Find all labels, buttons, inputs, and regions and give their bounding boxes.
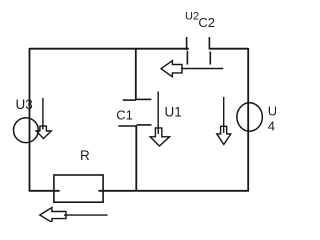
- voltage arrow U2 shaft: [181, 68, 223, 70]
- svg-text:U3: U3: [16, 97, 33, 112]
- svg-text:U2: U2: [185, 11, 199, 23]
- source U3 circle: [14, 118, 39, 143]
- capacitor C2 left plate: [186, 37, 189, 65]
- svg-text:R: R: [80, 148, 90, 163]
- voltage arrow U1 shaft: [157, 92, 159, 135]
- resistor R body: [54, 175, 103, 202]
- svg-text:C2: C2: [198, 15, 215, 30]
- current arrow bottom head: [40, 208, 66, 223]
- svg-text:U: U: [268, 103, 276, 118]
- voltage arrow U3 head: [36, 126, 51, 138]
- wire right branch (through U4): [247, 48, 249, 192]
- wire top (node between U3, C1, C2): [30, 48, 189, 50]
- voltage arrow U4 shaft: [223, 97, 225, 133]
- voltage arrow U4 head: [217, 126, 231, 144]
- capacitor C1 bottom plate: [118, 125, 151, 126]
- wire C2 right lead to top-right corner: [210, 48, 248, 50]
- wire bottom right (resistor R to right corner): [99, 190, 249, 192]
- svg-text:U1: U1: [165, 105, 182, 120]
- voltage arrow U2 head: [161, 61, 182, 77]
- voltage arrow U1 head: [150, 128, 169, 146]
- current arrow bottom shaft: [64, 214, 108, 216]
- source U4 circle: [237, 103, 263, 131]
- svg-text:C1: C1: [116, 108, 133, 123]
- wire left branch (through U3): [29, 48, 31, 192]
- wire bottom left (to resistor R): [29, 190, 60, 192]
- wire C1 bottom lead: [135, 125, 137, 191]
- voltage arrow U3 shaft: [42, 98, 44, 129]
- wire C1 top lead: [135, 49, 137, 100]
- capacitor C1 top plate: [123, 98, 152, 101]
- capacitor C2 right plate: [208, 37, 211, 65]
- svg-text:4: 4: [268, 119, 275, 134]
